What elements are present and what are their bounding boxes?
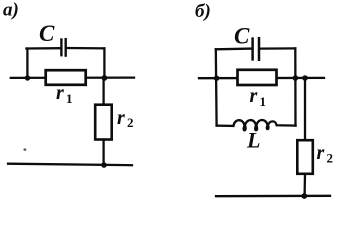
svg-text:r: r [56,82,64,104]
svg-text:r: r [117,107,125,129]
label b) [195,1,211,22]
node: b) left junction [214,76,219,81]
wire: a) r2 bottom lead [102,140,104,166]
wire: b) top-branch right horizontal [260,47,295,49]
label a) [3,0,19,20]
resistor R2 (circuit a) [95,105,112,140]
capacitor C (circuit b) left plate [251,39,254,60]
label r1 (circuit a) [56,82,73,106]
wire: b) bottom horizontal [216,195,330,198]
label r2 (circuit b) [317,142,334,166]
wire: b) main horizontal [199,77,324,80]
node: a) left junction [25,75,30,80]
svg-text:1: 1 [260,94,267,109]
capacitor C (circuit a) right plate [64,39,66,55]
wire: a) top-branch right horizontal [67,47,105,50]
svg-text:1: 1 [66,91,73,106]
inductor L (circuit b) [217,120,296,130]
node: b) right junction [293,75,299,81]
wire: a) main horizontal [11,76,134,79]
wire: b) top-branch left horizontal [216,47,252,50]
svg-text:r: r [317,142,325,164]
node: a) right junction [102,75,108,81]
wire: b) r2 bottom lead [303,174,306,196]
label r1 (circuit b) [250,85,267,109]
wire: a) bottom horizontal [8,164,132,166]
wire: a) top-branch left vertical [26,49,28,78]
svg-text:C: C [234,24,250,49]
wire: a) top-branch left horizontal [26,47,60,50]
resistor R2 (circuit b) [297,140,313,174]
label L [246,128,260,153]
capacitor C (circuit b) right plate [258,38,261,60]
speck artifact [24,149,27,151]
svg-text:а): а) [3,0,19,20]
capacitor C (circuit a) left plate [60,40,62,56]
svg-text:2: 2 [127,115,134,130]
label r2 (circuit a) [117,107,134,130]
svg-text:r: r [250,85,258,107]
svg-text:б): б) [195,1,211,22]
resistor R1 (circuit b) [238,70,277,85]
node: a) bottom junction [101,162,107,168]
wire: b) left vertical [215,49,218,125]
resistor R1 (circuit a) [46,70,86,85]
label C (circuit a) [39,21,55,46]
node: b) r2 junction [302,75,308,81]
label C (circuit b) [234,24,250,49]
wire: a) top-branch right vertical [103,48,105,77]
svg-text:L: L [246,128,260,153]
svg-text:C: C [39,21,55,46]
svg-text:2: 2 [327,151,334,166]
wire: b) r2 top lead [304,78,306,140]
wire: a) r2 top lead [102,78,104,105]
node: b) bottom junction [301,193,307,199]
wire: b) right vertical [294,48,297,125]
